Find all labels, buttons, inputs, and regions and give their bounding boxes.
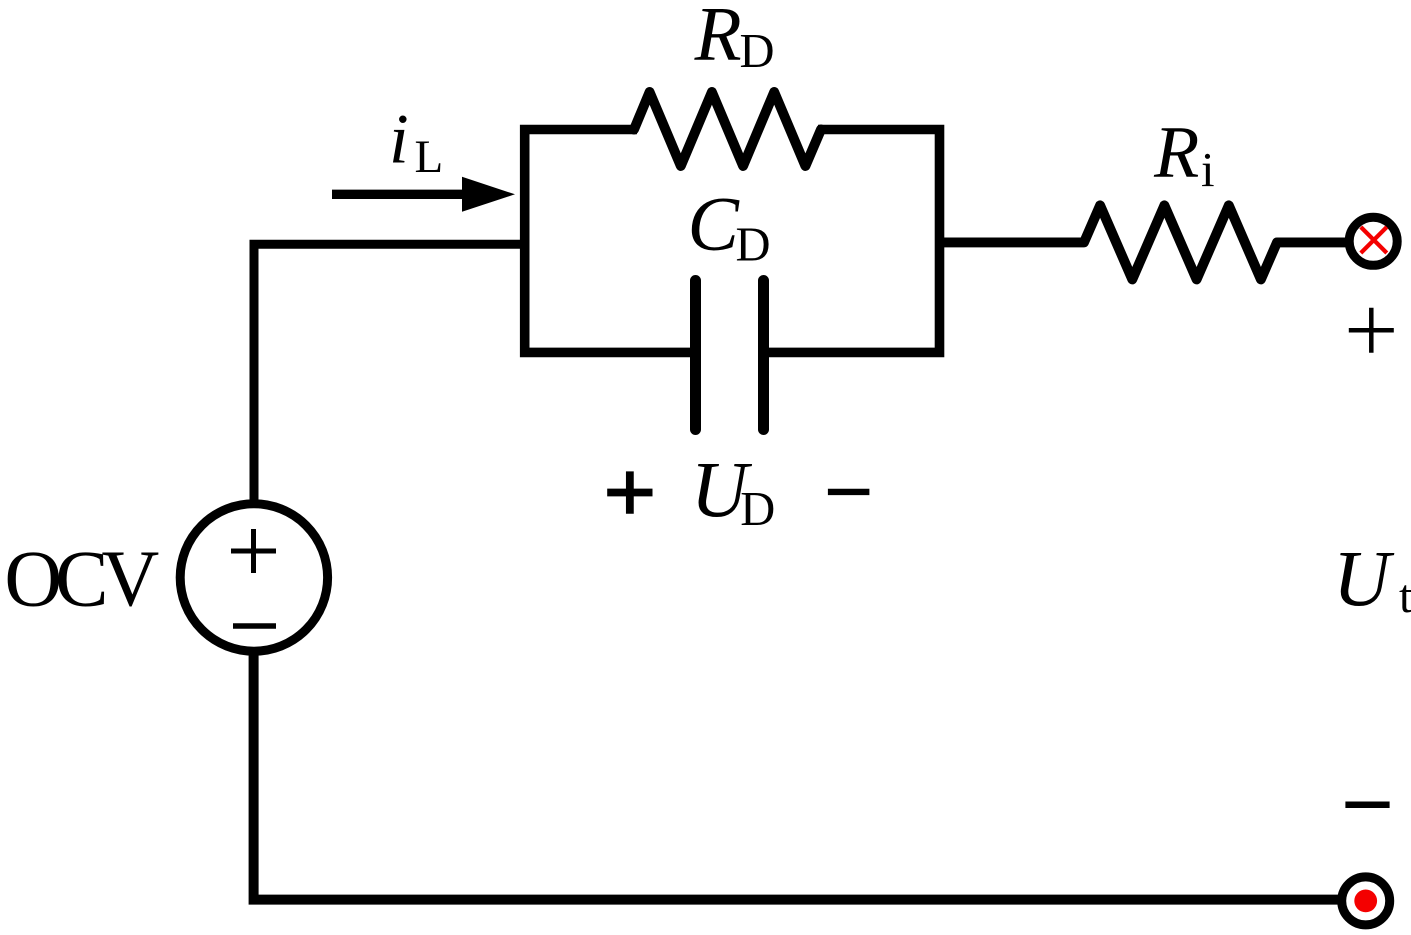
svg-text:L: L bbox=[415, 131, 444, 183]
svg-text:C: C bbox=[688, 181, 741, 267]
svg-text:D: D bbox=[740, 25, 775, 78]
capacitor CD plates bbox=[696, 281, 764, 430]
resistor RD zigzag bbox=[634, 92, 821, 166]
wire from OCV bottom to negative terminal bbox=[254, 655, 1338, 900]
svg-text:OCV: OCV bbox=[4, 536, 158, 624]
current arrow iL bbox=[332, 190, 468, 199]
minus symbol inside OCV bbox=[233, 623, 276, 629]
negative terminal (circle with red dot) bbox=[1342, 877, 1390, 925]
wire from block to Ri and resistor Ri zigzag bbox=[944, 205, 1349, 279]
svg-text:U: U bbox=[1333, 536, 1395, 623]
wire from OCV top to RC block (node A) bbox=[254, 244, 520, 503]
svg-text:i: i bbox=[389, 101, 409, 179]
plus symbol at positive terminal bbox=[1349, 308, 1394, 353]
RC parallel block outline with resistor RD zigzag on top bbox=[525, 130, 940, 353]
plus symbol for UD bbox=[607, 471, 652, 513]
svg-text:t: t bbox=[1399, 570, 1411, 623]
svg-text:i: i bbox=[1201, 142, 1215, 197]
minus symbol for UD bbox=[828, 489, 870, 495]
minus symbol at negative terminal bbox=[1345, 801, 1389, 808]
svg-text:D: D bbox=[736, 219, 771, 272]
voltage source OCV (circle) bbox=[180, 504, 327, 651]
svg-text:R: R bbox=[1153, 112, 1199, 194]
svg-text:D: D bbox=[740, 483, 775, 536]
svg-text:R: R bbox=[694, 0, 742, 77]
plus symbol inside OCV bbox=[231, 529, 276, 573]
positive terminal (circle with red x) bbox=[1349, 217, 1397, 265]
